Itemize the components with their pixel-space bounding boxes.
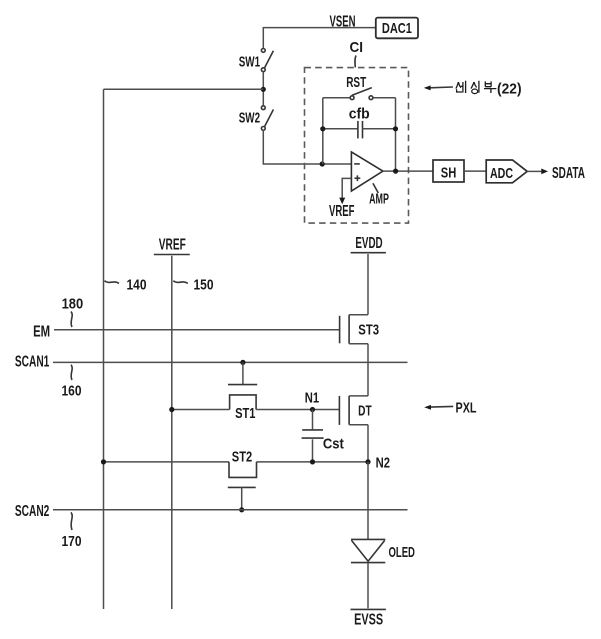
arrow to sensing unit label <box>424 85 453 90</box>
svg-text:ST3: ST3 <box>358 322 379 339</box>
label (22) <box>497 80 522 97</box>
wire VSEN top <box>263 28 376 49</box>
node dot VREF-ST1 <box>169 407 174 412</box>
transistor ST2 <box>228 448 257 510</box>
label sensing unit (Korean) glyph SE <box>456 81 466 93</box>
svg-text:RST: RST <box>346 74 366 91</box>
block ADC <box>486 160 527 183</box>
svg-text:cfb: cfb <box>349 106 370 123</box>
block DAC1 <box>376 18 418 39</box>
svg-text:ST1: ST1 <box>235 405 255 422</box>
svg-text:AMP: AMP <box>369 190 389 207</box>
svg-text:SW2: SW2 <box>239 110 260 127</box>
node dot ST1 gate on SCAN1 <box>240 360 245 365</box>
wire between SW1 and SW2 <box>262 72 264 106</box>
node N2 <box>365 454 390 471</box>
label sensing unit (Korean) glyph SING <box>471 81 479 94</box>
node junction dot at SW column <box>261 87 266 92</box>
svg-text:N2: N2 <box>376 454 390 471</box>
node dot ST2 gate on SCAN2 <box>239 507 244 512</box>
svg-text:(22): (22) <box>497 80 522 97</box>
svg-text:N1: N1 <box>305 389 319 406</box>
wire plus input to VREF arrow <box>339 178 351 204</box>
svg-text:160: 160 <box>62 383 82 400</box>
svg-text:SCAN1: SCAN1 <box>15 354 50 371</box>
svg-text:OLED: OLED <box>388 544 415 561</box>
label 150 <box>173 277 213 294</box>
label sensing unit (Korean) glyph BU <box>484 81 496 93</box>
label RST <box>346 74 366 91</box>
transistor ST1 <box>228 362 257 422</box>
label SCAN2 <box>15 503 50 520</box>
arrow to PXL label <box>424 399 476 416</box>
op-amp AMP <box>351 152 383 191</box>
wire EVDD vertical <box>367 254 369 315</box>
label 180 <box>62 296 84 327</box>
wire SCAN2 <box>53 509 408 511</box>
wire SH to ADC <box>464 170 486 172</box>
svg-text:ST2: ST2 <box>232 448 252 465</box>
EVSS rail <box>351 609 386 628</box>
node dot output <box>393 169 398 174</box>
label AMP <box>369 183 389 207</box>
svg-text:VREF: VREF <box>159 236 186 253</box>
wire N2 to OLED <box>367 462 369 539</box>
label CI <box>350 39 364 67</box>
svg-text:140: 140 <box>127 277 147 294</box>
capacitor Cst <box>302 410 344 462</box>
svg-text:DAC1: DAC1 <box>382 20 412 37</box>
node dot Cst-N2 row <box>310 459 315 464</box>
label SDATA <box>552 165 585 182</box>
svg-text:SH: SH <box>441 164 457 181</box>
svg-text:VSEN: VSEN <box>330 13 356 30</box>
capacitor cfb <box>323 106 396 139</box>
label 140 <box>105 277 147 294</box>
svg-text:180: 180 <box>62 296 84 313</box>
node N1 <box>305 389 319 412</box>
svg-text:Cst: Cst <box>323 436 344 453</box>
node dot left-N2 row <box>101 459 106 464</box>
label EM <box>33 323 50 340</box>
svg-text:VREF: VREF <box>329 203 355 220</box>
wire ST1 row <box>172 409 340 411</box>
EVDD supply rail <box>351 235 386 253</box>
VREF supply rail <box>154 236 190 254</box>
wire amp output <box>383 170 433 172</box>
node dot input <box>320 161 325 166</box>
svg-text:170: 170 <box>62 533 82 550</box>
wire feedback left vertical <box>322 98 324 164</box>
block SH <box>433 160 464 182</box>
wire SW2 to amp minus input <box>263 130 351 164</box>
wire N2 row <box>104 461 369 463</box>
diode OLED <box>351 539 415 562</box>
wire SCAN1 <box>53 361 408 363</box>
label 160 <box>62 365 82 400</box>
svg-text:SW1: SW1 <box>239 53 260 70</box>
wire ST3 to DT <box>367 344 369 396</box>
svg-text:SCAN2: SCAN2 <box>15 503 50 520</box>
svg-text:PXL: PXL <box>456 399 477 416</box>
label VSEN <box>330 13 356 30</box>
node dot cfb right <box>393 126 398 131</box>
wire to left vertical <box>104 88 264 90</box>
svg-text:DT: DT <box>358 402 372 419</box>
transistor ST3 <box>340 315 380 344</box>
wire EM <box>54 329 340 331</box>
svg-text:EVDD: EVDD <box>355 235 382 252</box>
svg-text:ADC: ADC <box>490 165 513 182</box>
label VREF (amp) <box>329 203 355 220</box>
svg-text:EVSS: EVSS <box>354 612 383 629</box>
switch RST <box>323 88 396 100</box>
node dot cfb left <box>320 126 325 131</box>
svg-text:CI: CI <box>350 39 364 56</box>
switch SW2 <box>239 106 274 130</box>
switch SW1 <box>239 49 274 72</box>
label SCAN1 <box>15 354 50 371</box>
wire feedback right vertical <box>395 98 397 171</box>
transistor DT <box>339 396 371 425</box>
label 170 <box>62 512 82 550</box>
wire DT to N2 <box>367 425 369 462</box>
wire ADC to SDATA arrow <box>527 169 548 175</box>
svg-text:EM: EM <box>33 323 50 340</box>
svg-text:SDATA: SDATA <box>552 165 585 182</box>
wire VREF vertical <box>171 256 173 609</box>
wire left vertical 140 <box>103 89 105 609</box>
wire OLED to EVSS <box>367 563 369 609</box>
sensing unit dashed box <box>305 68 409 224</box>
svg-text:150: 150 <box>194 277 214 294</box>
